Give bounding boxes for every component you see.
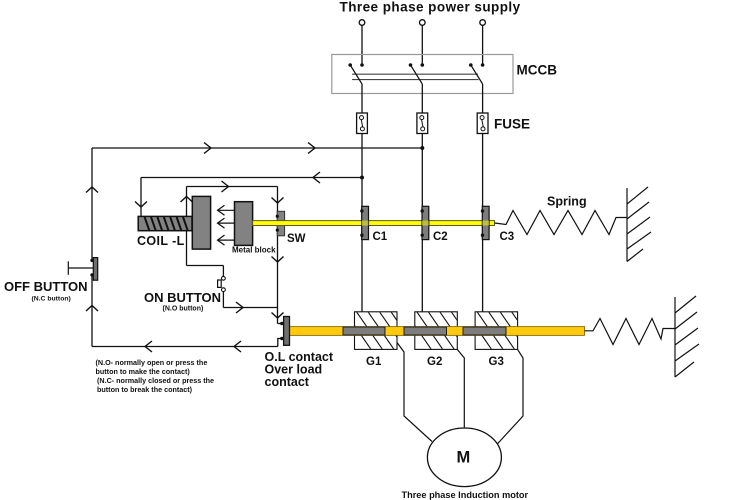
svg-text:(N.C button): (N.C button): [32, 296, 71, 303]
wire L1 to MCCB: [361, 25, 363, 65]
svg-text:contact: contact: [265, 375, 310, 389]
svg-text:(N.O button): (N.O button): [163, 306, 204, 313]
wire: SW line to OL top contact: [280, 322, 283, 325]
wire: left rail lower (OFF button to bottom rail): [86, 275, 98, 347]
junction node on line 2 at top rail: [420, 146, 424, 150]
svg-text:C1: C1: [373, 231, 388, 243]
svg-text:ON BUTTON: ON BUTTON: [144, 290, 221, 305]
attraction arrow 2: [218, 218, 235, 228]
bottom spring: [585, 319, 676, 345]
MCCB switch pole 2: [409, 63, 424, 113]
motor M: [427, 428, 501, 487]
wire: G1 output to motor: [397, 343, 432, 442]
wire: top control rail: [92, 143, 422, 154]
contactor C1 bar: [360, 206, 368, 239]
armature plate: [192, 196, 210, 249]
top anchor wall: [627, 187, 651, 262]
contactor C2 bar: [421, 206, 429, 239]
metal block: [235, 202, 253, 246]
fuse F1: [357, 113, 368, 134]
svg-text:M: M: [457, 449, 471, 467]
svg-text:Three phase power supply: Three phase power supply: [340, 0, 521, 15]
overload amber bar: [290, 327, 585, 336]
wire L3 to MCCB: [482, 25, 484, 65]
wire L2 to MCCB: [421, 25, 423, 65]
svg-text:button to make the contact): button to make the contact): [96, 367, 191, 376]
svg-text:C3: C3: [500, 231, 515, 243]
power line 3 (fuse F3 down to G3): [482, 134, 484, 312]
coil COIL-L: [138, 216, 192, 230]
MCCB switch pole 1: [348, 63, 363, 113]
wire: SW line vertical: [272, 187, 284, 324]
contactor C3 bar: [481, 206, 489, 239]
attraction arrow 1: [218, 205, 235, 215]
supply terminal L3: [480, 20, 486, 26]
wire: coil feed rail: [141, 172, 362, 183]
supply terminal L1: [359, 20, 365, 26]
MCCB switch pole 3: [469, 63, 484, 113]
svg-text:G3: G3: [489, 356, 504, 368]
wire: G2 output to motor: [457, 349, 464, 428]
overload bar gray segment 3: [463, 327, 506, 335]
SW switch block: [276, 211, 285, 236]
bottom anchor wall: [675, 296, 699, 377]
svg-text:FUSE: FUSE: [494, 117, 530, 132]
svg-text:Three phase Induction motor: Three phase Induction motor: [402, 490, 529, 500]
svg-text:SW: SW: [287, 233, 306, 245]
svg-text:MCCB: MCCB: [517, 63, 558, 78]
supply terminal L2: [420, 20, 426, 26]
svg-text:G1: G1: [366, 356, 382, 368]
wire: left rail upper (top rail to OFF button): [86, 148, 98, 260]
svg-text:(N.O- normally open or press t: (N.O- normally open or press the: [96, 358, 208, 367]
note text block: [96, 358, 215, 394]
MCCB linkage bars: [352, 74, 479, 79]
overload bar gray segment 2: [404, 327, 447, 335]
svg-text:C2: C2: [433, 231, 448, 243]
wire: armature top link to SW line: [187, 181, 278, 192]
ON button (N.O): [218, 276, 226, 291]
wire: coil drop: [135, 178, 147, 217]
attraction arrow 3: [218, 235, 235, 245]
MCCB enclosure box: [332, 55, 513, 94]
overload box G3: [466, 312, 538, 350]
svg-text:OFF BUTTON: OFF BUTTON: [4, 279, 88, 294]
wire: G3 output to motor: [495, 349, 523, 446]
wire: ON button to SW line: [223, 302, 277, 313]
svg-text:COIL -L: COIL -L: [137, 234, 185, 248]
fuse F3: [477, 113, 488, 134]
svg-text:button to break the contact): button to break the contact): [97, 385, 193, 394]
junction node on line 1 at coil rail: [360, 176, 364, 180]
wire: ON button top stub: [222, 266, 224, 277]
overload box G1: [345, 312, 417, 350]
wire: armature left drop (to ON button): [181, 187, 193, 266]
wire: bottom control rail: [92, 341, 278, 352]
top spring: [495, 211, 628, 235]
power line 1 (fuse F1 down to G1): [361, 134, 363, 312]
svg-text:Spring: Spring: [547, 195, 587, 209]
O.L contact bar: [278, 317, 290, 347]
OFF button (N.C): [68, 258, 97, 281]
fuse F2: [417, 113, 428, 134]
svg-text:Metal block: Metal block: [232, 246, 276, 255]
wire: ON button branch horizontal: [187, 265, 224, 267]
overload bar gray segment 1: [343, 327, 385, 335]
yellow contact shaft: [253, 221, 495, 226]
overload box G2: [405, 312, 477, 350]
svg-text:G2: G2: [427, 356, 442, 368]
svg-text:(N.C- normally closed or press: (N.C- normally closed or press the: [97, 376, 214, 385]
wire: ON button bottom stub: [222, 292, 224, 308]
power line 2 (fuse F2 down to G2): [421, 134, 423, 312]
